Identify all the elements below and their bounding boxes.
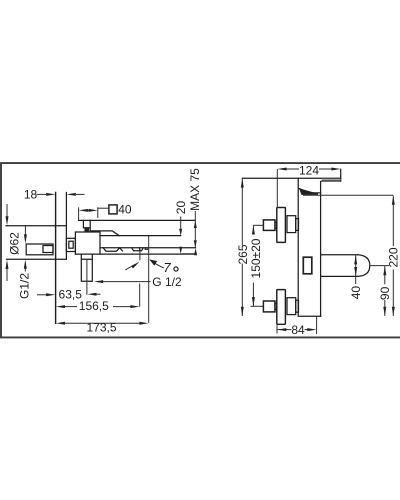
- svg-text:220: 220: [387, 247, 400, 267]
- G 1/2 leader to outlet: [101, 281, 151, 283]
- slot line lower / 220 ref line: [303, 194, 393, 196]
- handle tube rounded end: [358, 255, 370, 277]
- dimension 124: [283, 168, 299, 170]
- dimension 150 +/- 20 (rotated): [252, 225, 254, 234]
- body bottom edge: [299, 315, 321, 317]
- G1/2 label arrow to wall: [37, 294, 47, 296]
- spout top line: [100, 235, 181, 237]
- handle cap: [83, 220, 90, 231]
- 84 right extension: [316, 316, 318, 334]
- dimension diam 62: [6, 204, 8, 217]
- svg-text:20: 20: [174, 201, 188, 215]
- body right edge: [320, 182, 322, 317]
- svg-text:156,5: 156,5: [79, 299, 109, 313]
- svg-text:G1/2: G1/2: [17, 273, 31, 299]
- svg-text:40: 40: [349, 286, 363, 300]
- top inlet pipe: [275, 222, 277, 228]
- svg-text:173,5: 173,5: [86, 321, 116, 335]
- svg-text:84: 84: [291, 323, 305, 337]
- 156.5 extension line (lower): [139, 284, 141, 307]
- G 1/2 leader to hose nipple: [125, 264, 135, 270]
- handle stem (filled): [84, 228, 89, 232]
- 156.5 extension line (upper): [139, 249, 141, 260]
- svg-text:90: 90: [378, 286, 392, 300]
- dimension 18: [37, 193, 47, 195]
- svg-text:150±20: 150±20: [249, 238, 263, 278]
- aerator drop arrow: [179, 247, 182, 254]
- dimension 156.5: [62, 306, 78, 308]
- top inlet center ext: [253, 224, 263, 226]
- body left edge: [297, 178, 299, 316]
- diverter window: [303, 257, 312, 274]
- wall line: [55, 193, 57, 324]
- spout bottom line: [100, 247, 196, 249]
- 84 left extension: [276, 324, 278, 333]
- svg-text:124: 124: [299, 164, 319, 178]
- nut inner square: [69, 241, 73, 248]
- svg-text:MAX 75: MAX 75: [188, 168, 202, 211]
- square symbol 40 (handle size): [98, 207, 109, 209]
- dimension 90 (rotated): [384, 266, 386, 284]
- dimension 84: [277, 329, 292, 331]
- handshower outlet tube: [81, 254, 92, 281]
- connector nut: [66, 238, 75, 251]
- G1/2 pipe pointer arrow (upper): [24, 226, 26, 235]
- svg-text:7: 7: [163, 260, 171, 275]
- bottom inlet lip: [296, 300, 299, 312]
- svg-text:Ø62: Ø62: [7, 232, 21, 255]
- spout bar right edge: [340, 169, 342, 181]
- handle tube top: [321, 254, 358, 256]
- lever tail: [90, 231, 119, 236]
- spout bar lip strip: [322, 179, 341, 181]
- svg-text:40: 40: [118, 202, 132, 216]
- pipe end box: [43, 246, 53, 253]
- svg-text:G 1/2: G 1/2: [152, 275, 182, 289]
- slot line upper: [306, 192, 321, 194]
- bottom inlet nut: [263, 301, 275, 312]
- body bottom / lower ref line: [75, 253, 195, 255]
- dimension 40 (rotated): [355, 255, 357, 284]
- escutcheon face line: [65, 193, 67, 260]
- spout tip face + 173.5 extension line: [148, 236, 150, 323]
- underside tray 2: [132, 248, 148, 251]
- tube center tick: [370, 265, 389, 267]
- underside tray 1: [103, 248, 122, 252]
- frame border: [1, 163, 400, 337]
- in-wall supply pipe: [26, 244, 53, 255]
- handle envelope top line: [79, 219, 196, 221]
- top inlet block: [287, 216, 296, 233]
- handle tube bottom: [321, 275, 358, 277]
- dimension 63.5 arrow: [94, 293, 101, 295]
- svg-text:265: 265: [236, 244, 250, 264]
- top inlet flange: [277, 208, 286, 243]
- bottom inlet center ext: [251, 305, 264, 307]
- bottom inlet flange: [277, 290, 286, 325]
- dimension 220 (rotated): [392, 196, 394, 246]
- svg-text:18: 18: [24, 188, 38, 202]
- top inlet nut: [263, 220, 275, 231]
- lower ref elbow: [181, 253, 195, 254]
- G1/2 pipe pointer arrow (lower): [24, 268, 26, 272]
- dimension 40 arrows: [78, 207, 80, 220]
- 124 left extension: [276, 169, 278, 208]
- spout bar bottom line + left extension: [242, 177, 340, 179]
- 7 degree leader arrow: [155, 263, 164, 268]
- top inlet lip: [296, 219, 299, 231]
- flange top ref line: [6, 225, 66, 227]
- flange bottom ref line: [7, 258, 67, 260]
- mixer body (side): [75, 232, 100, 254]
- spout slot wedge: [299, 188, 318, 195]
- dimension 265 (rotated): [241, 178, 243, 245]
- dimension 173.5: [62, 322, 143, 324]
- bottom inlet block: [287, 298, 296, 315]
- outlet center rod / 63.5 extension: [86, 259, 88, 294]
- bottom inlet pipe: [275, 303, 277, 309]
